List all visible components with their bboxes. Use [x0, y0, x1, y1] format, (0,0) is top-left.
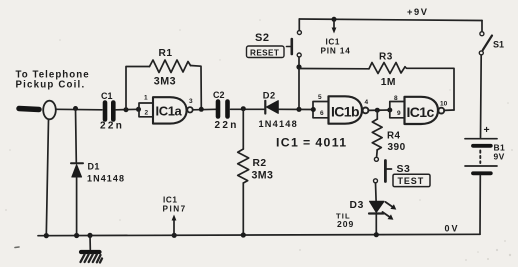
svg-text:3M3: 3M3	[252, 169, 274, 181]
wire: battery to 0V rail	[479, 176, 481, 235]
node: IC1c input junction	[387, 108, 392, 113]
wire: C1 to IC1a input	[116, 108, 139, 111]
svg-text:R4: R4	[387, 130, 400, 141]
wire: R2 to 0V rail	[242, 183, 244, 236]
wire: D2 to IC1b input	[278, 108, 313, 110]
node: rail junction at ground stub	[87, 233, 92, 238]
svg-text:C2: C2	[213, 90, 225, 100]
svg-text:209: 209	[337, 219, 354, 229]
wire: node to R3 left	[299, 68, 369, 70]
svg-text:TEST: TEST	[398, 176, 425, 186]
resistor R4	[372, 119, 382, 150]
svg-text:390: 390	[388, 142, 406, 153]
svg-text:22n: 22n	[100, 121, 124, 132]
wire: junction down to D1	[75, 109, 78, 163]
battery B1	[465, 139, 497, 174]
wire: plug to C1	[56, 108, 102, 111]
svg-text:2: 2	[145, 110, 149, 117]
label: RESET box	[247, 46, 285, 58]
wire: plug bottom to 0V rail	[46, 120, 48, 236]
wire: R1 to IC1a output	[191, 66, 202, 108]
svg-text:3: 3	[189, 98, 193, 105]
wire: S1 to battery	[480, 55, 483, 138]
svg-text:Pickup Coil.: Pickup Coil.	[16, 80, 86, 91]
pushbutton S3 (TEST)	[374, 157, 392, 183]
IC1 pin 14 arrow	[332, 19, 337, 33]
node: R2 top junction	[241, 106, 246, 111]
svg-text:1: 1	[144, 95, 148, 102]
wire: D3 to 0V rail	[375, 214, 377, 235]
IC1a output bubble	[187, 107, 192, 112]
wire: junction up to S2 / R3 node	[298, 67, 300, 109]
node: IC1a input junction	[136, 107, 141, 112]
wire: +9V top rail	[299, 19, 482, 21]
svg-text:8: 8	[394, 95, 398, 102]
svg-text:S3: S3	[397, 163, 411, 175]
capacitor C2	[218, 102, 228, 117]
IC1b output bubble	[363, 108, 369, 114]
svg-text:PIN 14: PIN 14	[321, 47, 351, 56]
svg-text:IC1a: IC1a	[156, 104, 183, 119]
wire: IC1c output to R3 vertical	[444, 109, 454, 111]
IC1 pin 7 arrow	[172, 215, 177, 235]
svg-text:+9V: +9V	[407, 7, 429, 17]
node: rail junction at R2 column	[241, 232, 246, 237]
wire: 0V bottom rail	[38, 234, 480, 235]
svg-text:S1: S1	[493, 40, 504, 50]
NAND gate IC1c body	[405, 97, 439, 124]
resistor R3	[369, 63, 405, 74]
svg-text:1N4148: 1N4148	[259, 119, 298, 129]
svg-text:R2: R2	[253, 158, 267, 169]
node: rail junction at IC1 pin7 arrow	[172, 233, 177, 238]
wire: S3 to D3	[375, 183, 378, 201]
svg-text:1M: 1M	[381, 77, 396, 88]
wire: C2 to D2	[231, 108, 265, 110]
svg-text:3M3: 3M3	[154, 75, 176, 87]
diode D2	[265, 101, 278, 114]
resistor R2	[238, 149, 249, 183]
switch S1	[479, 21, 492, 55]
wire: R3 right to IC1c output vertical	[405, 67, 454, 110]
svg-text:D3: D3	[350, 200, 365, 211]
svg-text:PIN7: PIN7	[163, 205, 187, 214]
IC1c output bubble	[438, 108, 444, 114]
NAND gate IC1c input bracket	[390, 102, 405, 118]
svg-text:IC1: IC1	[163, 196, 178, 205]
LED D3 emission arrows	[383, 202, 397, 220]
node: IC1 pin14 junction on +9V rail	[332, 17, 337, 22]
svg-text:D2: D2	[263, 90, 276, 100]
svg-text:IC1 = 4011: IC1 = 4011	[276, 136, 347, 150]
svg-text:5: 5	[318, 94, 322, 101]
svg-text:RESET: RESET	[250, 48, 279, 57]
svg-text:4: 4	[365, 99, 369, 106]
node: input junction	[73, 106, 78, 111]
NAND gate IC1b body	[329, 96, 363, 123]
ground	[81, 235, 103, 262]
svg-text:22n: 22n	[215, 120, 239, 131]
node: D2 output junction	[296, 107, 301, 112]
wire: junction down to R2	[242, 109, 244, 149]
node: R1 feedback left junction	[124, 107, 129, 112]
input lead stub	[19, 109, 39, 110]
svg-text:IC1b: IC1b	[331, 104, 359, 120]
node: R4 top junction	[375, 108, 380, 113]
label: IC1 PIN 14	[321, 38, 351, 56]
wire: R1 feedback loop left and top	[126, 67, 150, 110]
label: IC1 PIN7	[163, 196, 187, 214]
node: rail junction at D1 column	[74, 233, 79, 238]
svg-text:9: 9	[397, 110, 401, 117]
NAND gate IC1a input bracket	[139, 103, 153, 117]
node: IC1a output junction	[199, 107, 204, 112]
wire: IC1a output to C2	[193, 108, 216, 111]
svg-text:10: 10	[440, 101, 448, 108]
node: rail junction at input column	[44, 233, 49, 238]
node: S2 bottom / R3 left junction	[296, 64, 301, 69]
node: rail junction at D3 column	[374, 232, 379, 237]
svg-text:0V: 0V	[445, 224, 460, 234]
pushbutton S2 (RESET)	[287, 19, 302, 65]
svg-text:6: 6	[320, 110, 324, 117]
svg-text:IC1c: IC1c	[407, 104, 435, 120]
LED D3	[369, 201, 384, 213]
NAND gate IC1b input bracket	[313, 102, 329, 118]
input plug (pickup coil connector)	[43, 101, 56, 120]
svg-text:+: +	[484, 124, 490, 136]
wire: R4 to S3	[376, 150, 379, 157]
svg-text:9V: 9V	[494, 152, 505, 162]
svg-text:D1: D1	[88, 161, 100, 171]
label: TEST box	[393, 174, 430, 186]
capacitor C1	[105, 103, 113, 120]
svg-text:IC1: IC1	[326, 38, 341, 47]
svg-text:R3: R3	[379, 52, 393, 63]
label: To Telephone Pickup Coil	[16, 70, 90, 91]
NAND gate IC1a body	[153, 97, 187, 123]
svg-text:R1: R1	[159, 48, 173, 59]
resistor R1	[150, 60, 191, 73]
svg-text:S2: S2	[255, 32, 269, 44]
wire: IC1b output to IC1c input	[368, 109, 389, 111]
svg-text:1N4148: 1N4148	[87, 173, 125, 183]
wire: D1 to 0V rail	[76, 177, 78, 235]
wire: junction down to R4	[376, 110, 378, 119]
svg-text:C1: C1	[101, 91, 113, 101]
diode D1	[71, 163, 83, 177]
node: IC1b input junction	[311, 107, 316, 112]
